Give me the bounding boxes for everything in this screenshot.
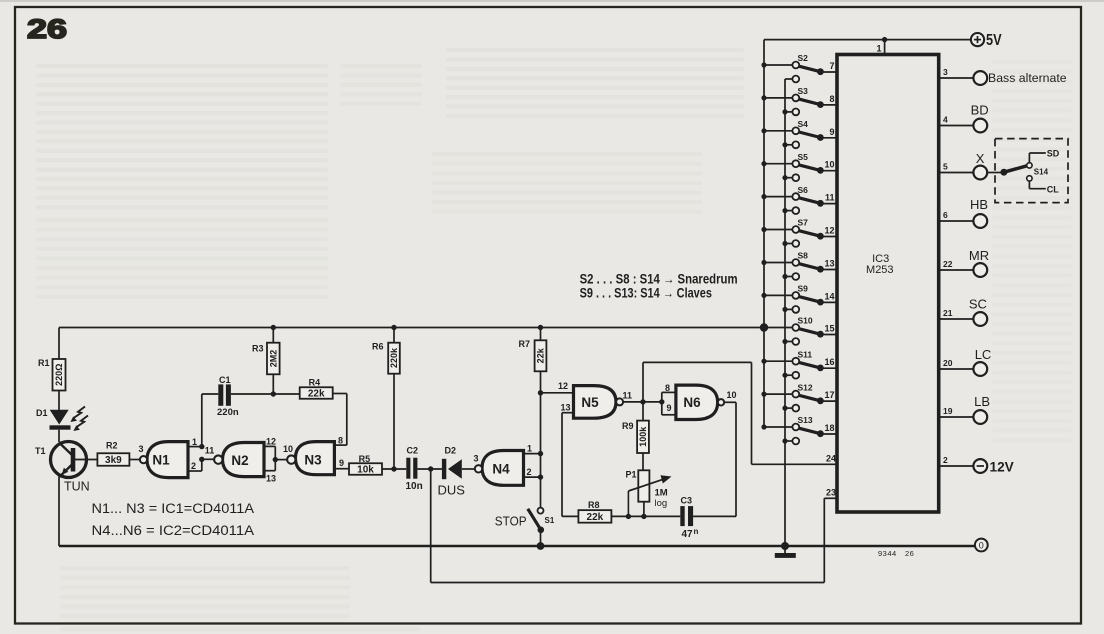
svg-text:R6: R6	[372, 341, 384, 351]
svg-text:22k: 22k	[587, 512, 604, 523]
svg-text:2M2: 2M2	[269, 350, 279, 368]
svg-text:9: 9	[667, 403, 672, 413]
svg-text:23: 23	[826, 488, 836, 498]
svg-text:S14: S14	[1034, 168, 1049, 177]
svg-text:8: 8	[829, 94, 834, 104]
wire to N2	[202, 446, 214, 460]
terminal BD (pin 4)	[940, 103, 989, 133]
svg-text:SD: SD	[1047, 149, 1060, 159]
svg-text:10n: 10n	[406, 481, 423, 492]
svg-text:10: 10	[727, 390, 737, 400]
wire N4 pin1	[524, 444, 544, 457]
svg-text:C2: C2	[407, 446, 419, 456]
svg-text:D1: D1	[36, 408, 48, 418]
node 9344 26	[878, 549, 914, 558]
wire N4 pin2	[524, 467, 544, 480]
switch S12	[761, 382, 837, 411]
terminal Bass alternate (pin 3)	[940, 67, 1067, 85]
svg-text:0: 0	[979, 540, 984, 550]
svg-text:T1: T1	[35, 446, 46, 456]
photodiode D1	[36, 407, 88, 432]
svg-text:P1: P1	[626, 470, 637, 480]
svg-text:7: 7	[829, 61, 834, 71]
wire D2 to N4	[462, 468, 475, 470]
resistor R3	[252, 325, 280, 394]
svg-text:Bass alternate: Bass alternate	[988, 71, 1067, 85]
switch S10	[761, 316, 837, 345]
svg-text:16: 16	[824, 357, 834, 367]
wire R1 to D1	[58, 391, 60, 411]
svg-text:10: 10	[283, 444, 293, 454]
wire +5V rail	[764, 39, 971, 41]
svg-text:D2: D2	[445, 445, 457, 455]
svg-text:17: 17	[824, 390, 834, 400]
svg-text:9: 9	[829, 127, 834, 137]
svg-text:2: 2	[943, 455, 948, 465]
svg-text:21: 21	[943, 308, 953, 318]
svg-text:S9: S9	[798, 284, 809, 294]
wire D1 to T1	[58, 430, 60, 442]
gate N1 (pin 3 output bubble)	[138, 442, 188, 478]
svg-text:8: 8	[338, 435, 343, 445]
transistor T1 (TUN)	[35, 442, 90, 494]
svg-text:N6: N6	[683, 395, 701, 410]
svg-text:20: 20	[943, 358, 953, 368]
wire T1 base to R2	[74, 459, 98, 461]
wire T1 emitter to 0 rail	[58, 477, 60, 547]
switch S3	[761, 86, 837, 115]
svg-text:12: 12	[558, 381, 568, 391]
gate N5	[541, 381, 633, 418]
svg-text:10k: 10k	[357, 465, 374, 476]
switch S9	[761, 284, 837, 313]
gate N4	[473, 451, 523, 486]
note N1..N3 = IC1	[92, 501, 255, 517]
svg-text:S4: S4	[798, 119, 809, 129]
node N1 output feedback junction	[199, 394, 204, 462]
ground	[775, 542, 796, 558]
svg-text:MR: MR	[969, 248, 989, 263]
wire +5V bus (upper contacts)	[763, 40, 765, 427]
svg-text:X: X	[976, 151, 985, 166]
wire R2 to N1	[129, 459, 140, 461]
svg-text:S10: S10	[798, 316, 813, 326]
svg-text:220n: 220n	[217, 407, 239, 418]
wire N3 pin9	[334, 458, 349, 469]
svg-text:R9: R9	[622, 421, 634, 431]
svg-text:CL: CL	[1047, 184, 1059, 194]
svg-text:R4: R4	[309, 377, 321, 387]
svg-text:24: 24	[826, 454, 836, 464]
svg-text:5: 5	[943, 162, 948, 172]
svg-text:R5: R5	[359, 454, 371, 464]
resistor R1	[38, 358, 66, 391]
svg-text:N1: N1	[152, 452, 170, 467]
svg-text:11: 11	[205, 446, 215, 456]
wire N1 pin2	[188, 459, 202, 471]
wire R5 to C2	[382, 466, 406, 471]
capacitor C3	[680, 496, 736, 540]
note S2..S8	[580, 271, 738, 286]
svg-text:HB: HB	[970, 197, 988, 212]
svg-text:13: 13	[561, 403, 571, 413]
terminal X (pin 5)	[940, 151, 987, 179]
svg-text:22k: 22k	[536, 347, 546, 363]
svg-text:n: n	[694, 527, 699, 536]
svg-text:S2 . . . S8 : S14 → Snaredrum: S2 . . . S8 : S14 → Snaredrum	[580, 271, 738, 286]
svg-text:N4: N4	[492, 461, 510, 476]
svg-text:N5: N5	[581, 395, 599, 410]
wire N6 output loop to C3	[724, 402, 736, 516]
svg-text:2: 2	[191, 461, 196, 471]
power +5V	[971, 32, 1002, 49]
svg-text:3: 3	[943, 67, 948, 77]
svg-text:22: 22	[943, 259, 953, 269]
svg-text:S11: S11	[798, 349, 813, 359]
capacitor C2	[406, 446, 423, 492]
svg-text:11: 11	[623, 390, 633, 400]
wire C2 to D2, node to pin23 loop	[417, 466, 442, 471]
wire C1 right to R3/R4 node	[231, 391, 276, 396]
wire N5 output to N6 inputs	[623, 399, 664, 404]
svg-text:14: 14	[824, 291, 834, 301]
svg-text:log: log	[655, 498, 668, 509]
svg-text:S5: S5	[798, 152, 809, 162]
svg-text:4: 4	[943, 115, 948, 125]
switch S11	[761, 349, 837, 378]
wire R7/N5 junction down to N4/S1	[538, 390, 543, 507]
wire N6 input bracket pins 8/9	[662, 383, 676, 415]
switch S13	[761, 415, 837, 444]
svg-text:1: 1	[876, 44, 881, 54]
svg-text:SC: SC	[969, 297, 987, 312]
svg-text:S9 . . . S13: S14 → Claves: S9 . . . S13: S14 → Claves	[580, 286, 712, 301]
svg-text:220k: 220k	[389, 347, 399, 368]
terminal LC (pin 20)	[940, 347, 991, 376]
svg-text:C1: C1	[219, 375, 231, 385]
svg-text:1: 1	[192, 437, 197, 447]
potentiometer P1	[626, 470, 672, 520]
svg-text:1: 1	[527, 444, 532, 454]
terminal HB (pin 6)	[940, 197, 988, 228]
svg-text:STOP: STOP	[495, 513, 527, 528]
gate N6	[676, 385, 737, 419]
svg-text:12: 12	[824, 226, 834, 236]
node supply rail junction	[760, 323, 768, 331]
IC3 M253	[837, 55, 939, 513]
wire IC pin 1	[876, 37, 887, 55]
terminal MR (pin 22)	[940, 248, 989, 277]
svg-text:13: 13	[824, 259, 834, 269]
svg-text:22k: 22k	[308, 389, 325, 400]
svg-text:S2: S2	[798, 53, 809, 63]
svg-text:220Ω: 220Ω	[54, 364, 64, 386]
switch S7	[761, 218, 837, 247]
svg-text:3k9: 3k9	[105, 455, 122, 466]
resistor R7	[519, 325, 547, 393]
svg-text:12: 12	[266, 436, 276, 446]
terminal LB (pin 19)	[940, 394, 990, 424]
resistor R8	[562, 500, 680, 523]
svg-text:S8: S8	[798, 251, 809, 261]
svg-text:S12: S12	[798, 382, 813, 392]
svg-text:100k: 100k	[638, 426, 648, 447]
svg-text:1M: 1M	[655, 488, 668, 499]
svg-text:26: 26	[27, 14, 67, 44]
svg-text:9344: 9344	[878, 549, 897, 558]
switch S5	[761, 152, 837, 181]
svg-text:11: 11	[825, 193, 835, 203]
svg-text:2: 2	[527, 467, 532, 477]
svg-text:N2: N2	[231, 453, 248, 468]
wire lower-contact bus to ground	[784, 79, 786, 546]
svg-text:TUN: TUN	[64, 480, 90, 494]
svg-text:5V: 5V	[986, 32, 1002, 49]
svg-text:LC: LC	[975, 347, 992, 362]
terminal 0	[975, 539, 988, 552]
svg-text:N1... N3 = IC1=CD4011A: N1... N3 = IC1=CD4011A	[92, 501, 255, 517]
svg-text:12V: 12V	[990, 459, 1014, 474]
switch S6	[761, 185, 837, 214]
resistor R6	[372, 325, 400, 469]
svg-text:10: 10	[824, 160, 834, 170]
gate N3	[287, 442, 334, 475]
svg-text:R7: R7	[519, 339, 531, 349]
svg-text:19: 19	[943, 406, 953, 416]
svg-text:M253: M253	[866, 264, 894, 276]
svg-text:S7: S7	[798, 218, 809, 228]
wire N1 pin1	[188, 437, 205, 449]
svg-text:R3: R3	[252, 344, 264, 354]
wire left column	[58, 328, 60, 360]
resistor R2	[97, 441, 129, 467]
svg-text:3: 3	[473, 453, 478, 463]
resistor R4	[273, 377, 347, 399]
switch S8	[761, 251, 837, 280]
svg-text:13: 13	[266, 474, 276, 484]
gate N2	[214, 443, 264, 477]
wire N5 pin13	[561, 403, 574, 517]
power -12V (pin 2)	[940, 455, 1014, 474]
switch S1 (STOP)	[495, 508, 555, 550]
svg-text:BD: BD	[971, 103, 989, 118]
wire N5/N6 node to IC pin 24	[643, 362, 837, 464]
svg-text:3: 3	[138, 444, 143, 454]
svg-text:S3: S3	[798, 86, 809, 96]
svg-text:S1: S1	[545, 516, 555, 525]
capacitor C1	[217, 375, 239, 418]
resistor R5	[349, 454, 382, 476]
wire N2 pins 12/13 bracket	[264, 436, 278, 483]
note N4..N6 = IC2	[92, 523, 255, 539]
svg-text:R2: R2	[106, 441, 118, 451]
svg-text:C3: C3	[681, 496, 693, 506]
switch S2	[761, 53, 837, 82]
note S9..S13	[580, 286, 712, 301]
svg-text:8: 8	[665, 383, 670, 393]
switch S14 (SD/CL selector)	[987, 139, 1068, 203]
svg-text:R8: R8	[588, 500, 600, 510]
svg-text:26: 26	[905, 549, 914, 558]
svg-text:R1: R1	[38, 358, 50, 368]
wire C2/D2 node to IC pin 23	[431, 469, 837, 583]
switch S4	[761, 119, 837, 148]
wire to N3	[275, 444, 293, 460]
svg-text:LB: LB	[974, 394, 990, 409]
wire 0V rail	[59, 545, 975, 548]
svg-text:S13: S13	[798, 415, 813, 425]
diode D2 (DUS)	[438, 445, 466, 497]
terminal SC (pin 21)	[940, 297, 987, 326]
svg-text:6: 6	[943, 210, 948, 220]
svg-text:N4...N6 = IC2=CD4011A: N4...N6 = IC2=CD4011A	[92, 523, 255, 539]
wire C1 left	[202, 393, 219, 395]
svg-text:18: 18	[824, 423, 834, 433]
svg-text:47: 47	[682, 529, 694, 540]
wire N3 pin8 to R4	[334, 394, 346, 446]
resistor R9	[622, 402, 649, 470]
svg-text:S6: S6	[798, 185, 809, 195]
svg-text:DUS: DUS	[438, 483, 466, 498]
svg-text:N3: N3	[304, 452, 322, 467]
svg-text:15: 15	[824, 324, 834, 334]
wire supply rail	[59, 327, 764, 329]
svg-text:9: 9	[339, 458, 344, 468]
